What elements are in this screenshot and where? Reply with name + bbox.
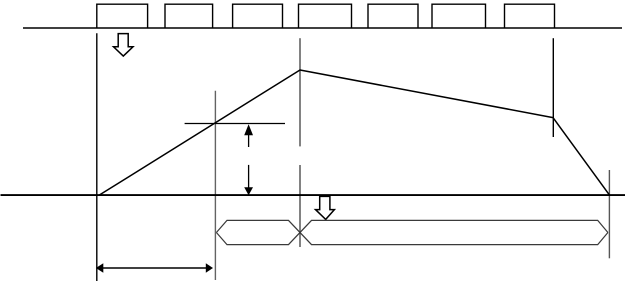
clock pulse 2 xyxy=(165,4,213,28)
clock pulse 1 xyxy=(97,4,148,28)
up arrow shaft xyxy=(248,134,250,147)
span arrow left head xyxy=(96,263,103,272)
bus rail upper xyxy=(216,220,608,244)
wire: main baseline xyxy=(1,194,626,196)
up arrow head xyxy=(244,124,253,135)
waveform ramp xyxy=(99,70,609,195)
marker line B xyxy=(214,91,216,280)
span arrow line xyxy=(103,267,206,269)
down arrow head xyxy=(244,187,253,195)
marker line A xyxy=(96,33,98,281)
bus rail lower xyxy=(216,220,608,244)
hollow down arrow 2 xyxy=(316,196,335,219)
marker line C upper xyxy=(299,38,301,146)
clock pulse 5 xyxy=(368,4,418,28)
clock pulse 3 xyxy=(233,4,283,28)
hollow down arrow 1 xyxy=(114,34,134,57)
measure level line xyxy=(185,123,285,125)
marker line C lower xyxy=(299,165,301,247)
clock pulse 7 xyxy=(505,4,555,28)
marker line D xyxy=(552,38,554,137)
clock pulse 4 xyxy=(299,4,352,28)
span arrow right head xyxy=(206,263,213,272)
marker line E xyxy=(608,170,610,258)
down arrow shaft xyxy=(248,165,250,188)
clock pulse 6 xyxy=(432,4,486,28)
wire: clock baseline xyxy=(23,27,622,29)
